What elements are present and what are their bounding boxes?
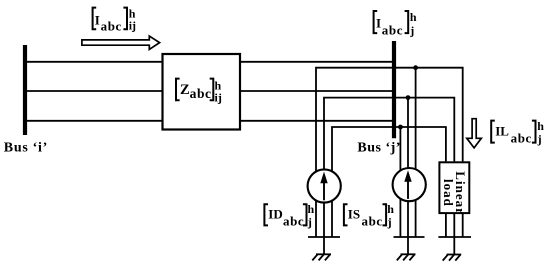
wire phase c: Bus i to Zabc bbox=[25, 120, 163, 122]
wire net phase b: tap to ID source, across bus, to linear load bbox=[324, 98, 454, 237]
bus bar Bus 'i' bbox=[23, 45, 27, 135]
wire phase a: Bus i to Zabc bbox=[25, 61, 163, 63]
wire IS drop phase a bbox=[415, 68, 417, 237]
current source ID (circle) bbox=[308, 169, 341, 202]
bus bar Bus 'j' bbox=[392, 41, 396, 138]
ground lead linear load bbox=[453, 237, 455, 254]
current source IS (circle) bbox=[393, 168, 426, 201]
neutral bar under linear load bbox=[438, 236, 471, 238]
wire phase b: Bus i to Zabc bbox=[25, 90, 163, 92]
svg-text:h: h bbox=[308, 202, 315, 216]
label [ILabc]j^h bbox=[491, 119, 544, 146]
wire phase a: Zabc to Bus j bbox=[240, 61, 393, 63]
svg-text:IL: IL bbox=[495, 123, 509, 138]
svg-text:h: h bbox=[387, 202, 394, 216]
svg-text:j: j bbox=[387, 215, 392, 229]
svg-text:abc: abc bbox=[362, 213, 383, 228]
svg-text:ij: ij bbox=[129, 19, 136, 33]
svg-text:I: I bbox=[376, 16, 381, 31]
linear load box bbox=[439, 162, 469, 213]
ground symbol IS bbox=[397, 254, 416, 260]
impedance block [Zabc]ij bbox=[163, 54, 241, 130]
current source ID arrow bbox=[320, 172, 327, 201]
svg-text:I: I bbox=[95, 12, 100, 27]
svg-text:IS: IS bbox=[348, 207, 360, 222]
load current arrow (hollow, down) bbox=[467, 119, 482, 148]
ground lead IS bbox=[407, 237, 409, 254]
wire IS drop phase c bbox=[399, 127, 401, 237]
branch current flow arrow (hollow, right) bbox=[82, 36, 160, 49]
current source IS arrow bbox=[404, 170, 411, 199]
neutral bar under ID bbox=[308, 236, 340, 238]
wire phase b: Zabc to Bus j bbox=[240, 90, 393, 92]
ground lead ID bbox=[323, 237, 325, 254]
svg-text:j: j bbox=[307, 215, 312, 229]
svg-text:ID: ID bbox=[268, 207, 282, 222]
svg-text:abc: abc bbox=[190, 86, 212, 101]
junction node phase b / IS bbox=[406, 95, 411, 100]
label [Iabc]j^h (injected bus current) bbox=[374, 10, 417, 37]
svg-text:abc: abc bbox=[101, 19, 122, 34]
junction node phase a / IS bbox=[413, 65, 418, 70]
label [Zabc]ij^h bbox=[176, 78, 222, 104]
wire IS drop phase b bbox=[407, 98, 409, 237]
svg-text:Bus ‘j’: Bus ‘j’ bbox=[357, 141, 401, 156]
svg-text:load: load bbox=[441, 179, 456, 207]
svg-text:h: h bbox=[410, 10, 417, 24]
svg-text:j: j bbox=[409, 23, 414, 37]
svg-text:abc: abc bbox=[511, 131, 532, 146]
wire phase c: Zabc to Bus j bbox=[240, 120, 393, 122]
wire net phase c: tap to ID source, across bus, to linear load bbox=[332, 127, 446, 237]
svg-text:ij: ij bbox=[215, 91, 222, 105]
label [Iabc]ij^h bbox=[93, 6, 136, 33]
label [IDabc]j^h bbox=[264, 202, 314, 229]
ground symbol linear load bbox=[443, 255, 462, 261]
svg-text:j: j bbox=[537, 132, 542, 146]
svg-text:abc: abc bbox=[283, 213, 304, 228]
ground symbol ID bbox=[312, 254, 331, 260]
svg-text:abc: abc bbox=[382, 22, 403, 37]
wire net phase a: tap to ID source, across bus, to linear load bbox=[316, 68, 463, 237]
junction node phase c / IS bbox=[398, 125, 403, 130]
neutral bar under IS bbox=[394, 236, 425, 238]
svg-text:Bus ‘i’: Bus ‘i’ bbox=[4, 141, 48, 156]
label [ISabc]j^h bbox=[344, 202, 394, 229]
linear load wires (box bottom to neutral bar) bbox=[446, 214, 463, 237]
svg-text:Z: Z bbox=[180, 82, 190, 98]
